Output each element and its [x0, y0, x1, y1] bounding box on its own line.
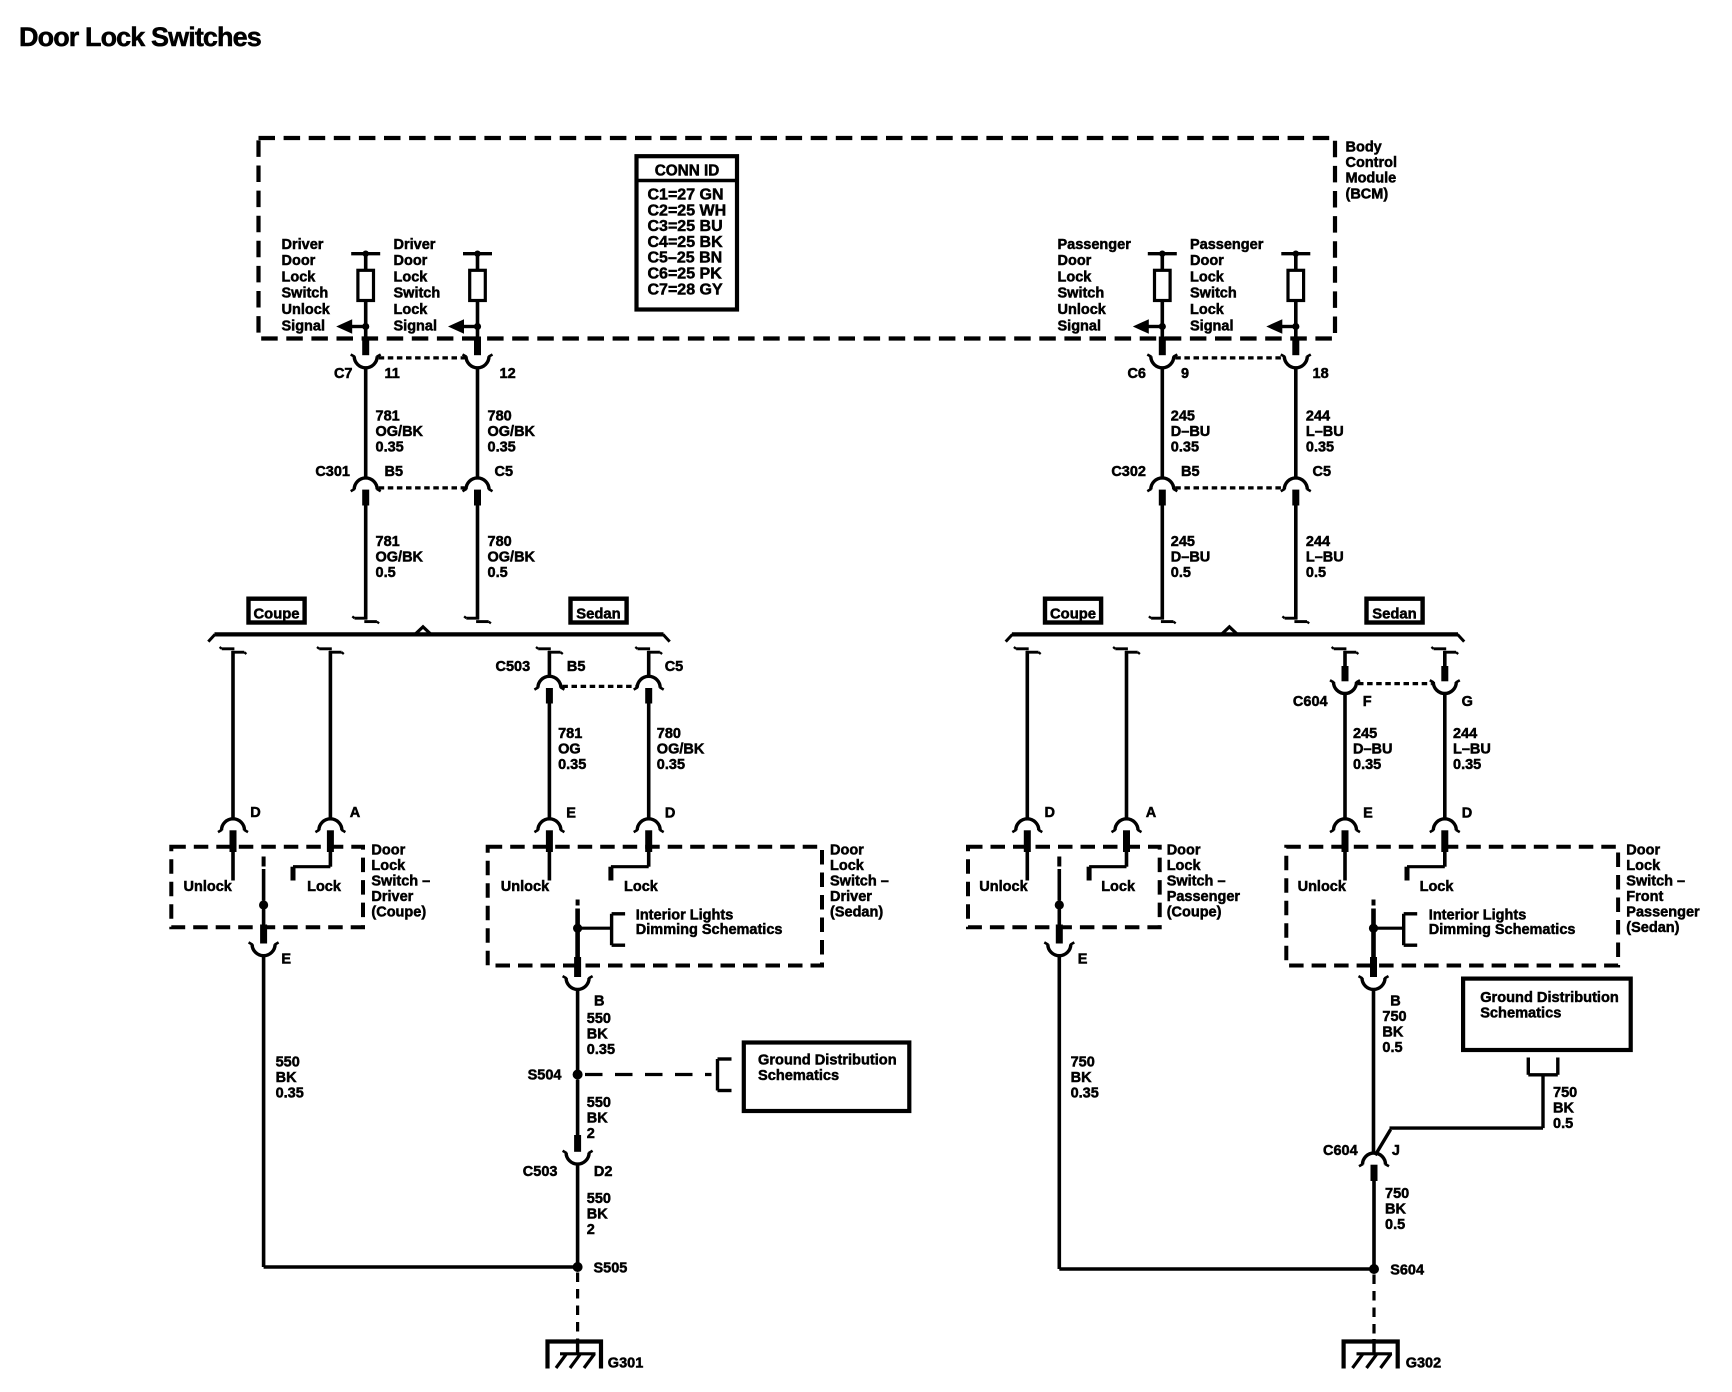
svg-text:Door: Door — [394, 253, 428, 269]
connector pin A passenger coupe switch — [1112, 805, 1157, 852]
bus brace driver side — [208, 627, 669, 642]
connector C302 pin B5 — [1147, 478, 1177, 506]
signal arrow driver lock — [448, 319, 481, 334]
svg-text:D: D — [665, 806, 675, 822]
svg-text:Signal: Signal — [282, 318, 326, 334]
svg-text:Unlock: Unlock — [979, 879, 1028, 895]
svg-text:0.35: 0.35 — [1071, 1086, 1099, 1102]
switch S4 Door Lock Switch - Front Passenger (Sedan) dashed box — [1286, 847, 1618, 990]
svg-text:Unlock: Unlock — [1058, 302, 1107, 318]
svg-text:C604: C604 — [1323, 1143, 1358, 1159]
label Unlock (passenger sedan) — [1298, 879, 1347, 895]
svg-text:S505: S505 — [594, 1261, 628, 1277]
svg-text:Switch: Switch — [1058, 286, 1105, 302]
connector C604 pin J — [1359, 1153, 1389, 1181]
svg-text:D–BU: D–BU — [1171, 550, 1210, 566]
svg-text:L–BU: L–BU — [1453, 742, 1491, 758]
svg-text:Lock: Lock — [371, 858, 406, 874]
svg-text:Switch: Switch — [1190, 286, 1237, 302]
svg-text:750: 750 — [1382, 1009, 1406, 1025]
svg-text:BK: BK — [1382, 1025, 1403, 1041]
wire and connector C6 pin 9 — [1147, 327, 1177, 368]
svg-text:0.35: 0.35 — [558, 757, 586, 773]
svg-text:Lock: Lock — [1058, 269, 1093, 285]
wire from ground distribution reference (right) — [1375, 1058, 1558, 1156]
wire sedan branch through connector C604 pin G — [1430, 647, 1460, 819]
resistor passenger unlock signal pull-up (BCM) — [1148, 251, 1177, 327]
splice S504 — [528, 1068, 583, 1084]
label Driver Door Lock Switch Unlock Signal — [282, 237, 331, 334]
svg-text:750: 750 — [1385, 1186, 1409, 1202]
svg-text:Driver: Driver — [282, 237, 324, 253]
label 781 OG/BK 0.35 — [376, 409, 424, 456]
svg-text:0.35: 0.35 — [1353, 757, 1381, 773]
label C301 B5 C5 — [315, 464, 513, 480]
label box Coupe (passenger) — [1045, 599, 1101, 623]
connector link C7 dashed — [379, 356, 465, 359]
label box Sedan (passenger) — [1367, 599, 1423, 623]
wire coupe branch to passenger switch lock (A) — [1113, 647, 1140, 819]
connector link C302 dashed — [1175, 486, 1283, 489]
svg-text:Lock: Lock — [830, 858, 865, 874]
connector pin E driver coupe switch output — [281, 952, 291, 968]
svg-text:C7: C7 — [334, 366, 353, 382]
svg-text:Switch –: Switch – — [1626, 873, 1685, 889]
svg-text:Lock: Lock — [1190, 269, 1225, 285]
svg-text:B: B — [594, 994, 604, 1010]
reference box Ground Distribution Schematics (right) — [1463, 979, 1631, 1050]
resistor passenger lock signal pull-up (BCM) — [1281, 251, 1310, 327]
svg-text:Door Lock Switches: Door Lock Switches — [19, 22, 261, 52]
svg-text:(Coupe): (Coupe) — [371, 904, 426, 920]
svg-text:Ground Distribution: Ground Distribution — [1480, 990, 1619, 1006]
label 244 L-BU 0.35 (sedan) — [1453, 726, 1491, 773]
label 550 BK 0.35 (sedan) — [587, 1011, 615, 1058]
svg-text:Switch: Switch — [282, 286, 329, 302]
svg-text:C5: C5 — [665, 659, 684, 675]
label Unlock (driver coupe) — [184, 879, 233, 895]
svg-text:C2=25 WH: C2=25 WH — [648, 202, 727, 219]
svg-text:S504: S504 — [528, 1068, 562, 1084]
wire 781 OG/BK 0.35 — [364, 368, 368, 479]
label Unlock (driver sedan) — [501, 879, 550, 895]
label C503 B5 C5 — [496, 659, 684, 675]
svg-text:Door: Door — [1167, 842, 1201, 858]
wire dashed to ground G301 — [576, 1273, 579, 1340]
switch S1 Door Lock Switch - Driver (Coupe) dashed box — [171, 847, 363, 956]
label Lock (passenger coupe) — [1101, 879, 1136, 895]
svg-text:C1=27 GN: C1=27 GN — [648, 187, 724, 204]
svg-text:L–BU: L–BU — [1306, 424, 1344, 440]
connector pin E passenger coupe switch output — [1078, 952, 1088, 968]
connector link C6 dashed — [1175, 356, 1283, 359]
label Lock (passenger sedan) — [1420, 879, 1455, 895]
wire 781 OG/BK 0.5 — [352, 506, 379, 624]
connector pin D driver sedan switch — [634, 806, 676, 852]
svg-text:Door: Door — [1190, 253, 1224, 269]
wire sedan branch through connector C604 pin F — [1330, 647, 1360, 819]
svg-text:0.35: 0.35 — [276, 1086, 304, 1102]
svg-text:0.5: 0.5 — [1382, 1040, 1402, 1056]
switch S3 Door Lock Switch - Passenger (Coupe) dashed box — [968, 847, 1160, 956]
svg-text:18: 18 — [1313, 366, 1329, 382]
svg-text:Door: Door — [1626, 842, 1660, 858]
label 245 D-BU 0.35 (sedan) — [1353, 726, 1392, 773]
svg-text:C503: C503 — [523, 1164, 558, 1180]
svg-text:780: 780 — [657, 726, 681, 742]
svg-text:550: 550 — [587, 1095, 611, 1111]
svg-text:2: 2 — [587, 1222, 595, 1238]
connector C301 pin C5 — [463, 478, 493, 506]
label 750 BK 0.5 (lower) — [1385, 1186, 1409, 1233]
svg-text:Lock: Lock — [282, 269, 317, 285]
label 780 OG/BK 0.35 — [657, 726, 705, 773]
svg-text:C6=25 PK: C6=25 PK — [648, 266, 723, 283]
wire dashed to ground distribution (S504) — [585, 1059, 732, 1091]
svg-text:G: G — [1462, 694, 1473, 710]
wire 244 L-BU 0.35 — [1294, 368, 1298, 479]
svg-text:OG/BK: OG/BK — [657, 742, 705, 758]
signal arrow passenger unlock — [1133, 319, 1166, 334]
svg-text:Lock: Lock — [624, 879, 659, 895]
svg-text:0.35: 0.35 — [1453, 757, 1481, 773]
svg-text:Unlock: Unlock — [501, 879, 550, 895]
svg-text:Sedan: Sedan — [1372, 606, 1416, 622]
connector pin B passenger sedan switch output — [1390, 994, 1400, 1010]
svg-text:Door: Door — [371, 842, 405, 858]
svg-text:Lock: Lock — [1420, 879, 1455, 895]
svg-text:C6: C6 — [1127, 366, 1146, 382]
svg-text:C5–25 BN: C5–25 BN — [648, 250, 723, 267]
svg-text:C604: C604 — [1293, 694, 1328, 710]
svg-text:C302: C302 — [1111, 464, 1146, 480]
label 550 BK 0.35 (coupe) — [276, 1055, 304, 1102]
wire sedan branch through connector C503 pin B5 — [534, 647, 564, 819]
label 781 OG/BK 0.5 — [376, 534, 424, 581]
svg-text:781: 781 — [376, 409, 400, 425]
svg-text:Front: Front — [1626, 889, 1663, 905]
label Interior Lights Dimming Schematics (driver) — [636, 907, 783, 938]
label 244 L-BU 0.35 — [1306, 409, 1344, 456]
svg-text:S604: S604 — [1390, 1263, 1424, 1279]
svg-text:BK: BK — [1071, 1070, 1092, 1086]
svg-text:E: E — [1363, 806, 1373, 822]
label box Sedan (driver) — [571, 599, 627, 623]
connector pin B driver sedan switch output — [594, 994, 604, 1010]
svg-text:B5: B5 — [385, 464, 404, 480]
svg-text:Door: Door — [1058, 253, 1092, 269]
wire coupe branch to driver switch lock (A) — [317, 647, 344, 819]
svg-text:780: 780 — [488, 534, 512, 550]
svg-text:245: 245 — [1171, 534, 1195, 550]
label 245 D-BU 0.35 — [1171, 409, 1210, 456]
svg-text:Lock: Lock — [394, 269, 429, 285]
wire 780 OG/BK 0.5 — [464, 506, 491, 624]
svg-text:BK: BK — [587, 1207, 608, 1223]
label C503 D2 — [523, 1164, 613, 1180]
svg-text:C3=25 BU: C3=25 BU — [648, 218, 723, 235]
svg-text:Sedan: Sedan — [576, 606, 620, 622]
label C302 B5 C5 — [1111, 464, 1331, 480]
svg-text:9: 9 — [1181, 366, 1189, 382]
svg-text:0.5: 0.5 — [1171, 565, 1191, 581]
wire 750 BK 0.5 (to S604) — [1372, 1181, 1376, 1269]
svg-text:E: E — [1078, 952, 1088, 968]
svg-text:BK: BK — [1553, 1101, 1574, 1117]
svg-text:Dimming Schematics: Dimming Schematics — [636, 922, 783, 938]
svg-text:Lock: Lock — [1626, 858, 1661, 874]
label 780 OG/BK 0.35 — [488, 409, 536, 456]
svg-text:Driver: Driver — [394, 237, 436, 253]
svg-text:G301: G301 — [608, 1356, 643, 1372]
connector pin D driver coupe switch — [218, 805, 261, 852]
svg-text:Driver: Driver — [830, 889, 872, 905]
wire and connector C7 pin 12 — [463, 327, 493, 368]
splice S505 — [573, 1261, 628, 1277]
wire coupe E to splice S505 — [264, 1265, 578, 1269]
svg-text:12: 12 — [500, 366, 516, 382]
label C7 11 12 — [334, 366, 516, 382]
svg-text:0.5: 0.5 — [376, 565, 396, 581]
svg-text:C5: C5 — [495, 464, 514, 480]
title Door Lock Switches — [19, 22, 261, 52]
connector pin D passenger sedan switch — [1430, 806, 1472, 852]
wire 244 L-BU 0.5 — [1282, 506, 1309, 624]
splice S604 — [1369, 1263, 1424, 1279]
svg-text:Unlock: Unlock — [1298, 879, 1347, 895]
svg-text:Schematics: Schematics — [1480, 1006, 1561, 1022]
label 780 OG/BK 0.5 — [488, 534, 536, 581]
svg-text:D: D — [250, 805, 260, 821]
label C604 J — [1323, 1143, 1400, 1159]
svg-text:J: J — [1392, 1143, 1400, 1159]
svg-text:750: 750 — [1071, 1055, 1095, 1071]
svg-text:D: D — [1462, 806, 1472, 822]
svg-text:Unlock: Unlock — [184, 879, 233, 895]
reference box Ground Distribution Schematics (left) — [744, 1043, 910, 1112]
label 750 BK 0.35 (coupe) — [1071, 1055, 1099, 1102]
svg-text:244: 244 — [1306, 409, 1330, 425]
label 550 BK 2 (upper) — [587, 1095, 611, 1142]
svg-text:781: 781 — [558, 726, 582, 742]
wire coupe branch to passenger switch unlock (D) — [1014, 647, 1041, 819]
svg-text:0.5: 0.5 — [1306, 565, 1326, 581]
wire 780 OG/BK 0.35 — [476, 368, 480, 479]
wire 550 BK 2 (lower) — [576, 1164, 580, 1267]
svg-text:B: B — [1390, 994, 1400, 1010]
svg-text:Interior Lights: Interior Lights — [636, 907, 733, 923]
svg-text:D: D — [1045, 805, 1055, 821]
switch S2 Door Lock Switch - Driver (Sedan) dashed box — [488, 847, 822, 990]
label C6 9 18 — [1127, 366, 1328, 382]
label Door Lock Switch - Passenger (Coupe) — [1167, 842, 1241, 920]
wire 550 BK 0.35 (sedan driver B) — [576, 989, 580, 1070]
svg-text:244: 244 — [1306, 534, 1330, 550]
svg-text:Coupe: Coupe — [253, 606, 299, 622]
svg-text:Door: Door — [282, 253, 316, 269]
svg-text:C7=28 GY: C7=28 GY — [648, 281, 723, 298]
svg-text:(Sedan): (Sedan) — [830, 904, 883, 920]
svg-text:E: E — [566, 806, 576, 822]
connector pin E driver sedan switch — [534, 806, 576, 852]
svg-text:550: 550 — [587, 1011, 611, 1027]
svg-text:BK: BK — [587, 1111, 608, 1127]
svg-text:Interior Lights: Interior Lights — [1429, 907, 1526, 923]
label Interior Lights Dimming Schematics (passenger) — [1429, 907, 1576, 938]
svg-text:C4=25 BK: C4=25 BK — [648, 234, 724, 251]
svg-text:BK: BK — [276, 1070, 297, 1086]
svg-text:Switch –: Switch – — [371, 873, 430, 889]
svg-text:0.35: 0.35 — [587, 1042, 615, 1058]
bus brace passenger side — [1006, 627, 1464, 642]
svg-text:G302: G302 — [1406, 1356, 1441, 1372]
svg-text:Dimming Schematics: Dimming Schematics — [1429, 922, 1576, 938]
svg-text:Passenger: Passenger — [1190, 237, 1264, 253]
svg-text:0.35: 0.35 — [1306, 440, 1334, 456]
label Lock (driver coupe) — [307, 879, 342, 895]
svg-text:Coupe: Coupe — [1050, 606, 1096, 622]
ground G302 — [1344, 1339, 1442, 1372]
svg-text:C503: C503 — [496, 659, 531, 675]
svg-text:C301: C301 — [315, 464, 350, 480]
label box Coupe (driver) — [249, 599, 305, 623]
label Body Control Module (BCM) — [1346, 140, 1398, 203]
svg-text:OG/BK: OG/BK — [488, 550, 536, 566]
svg-text:0.35: 0.35 — [488, 440, 516, 456]
label 781 OG 0.35 — [558, 726, 586, 773]
label 750 BK 0.5 (reference drop) — [1553, 1085, 1577, 1132]
svg-text:OG/BK: OG/BK — [376, 550, 424, 566]
wire coupe E to splice S604 — [1059, 1267, 1374, 1271]
svg-text:(Coupe): (Coupe) — [1167, 904, 1222, 920]
svg-text:(BCM): (BCM) — [1346, 186, 1389, 202]
svg-text:A: A — [1146, 805, 1157, 821]
connector pin D passenger coupe switch — [1012, 805, 1055, 852]
svg-text:0.5: 0.5 — [1385, 1217, 1405, 1233]
svg-text:Body: Body — [1346, 140, 1382, 156]
svg-text:Signal: Signal — [1058, 318, 1102, 334]
connector C503 pin D2 — [563, 1135, 593, 1164]
label Passenger Door Lock Switch Lock Signal — [1190, 237, 1264, 334]
svg-text:Module: Module — [1346, 171, 1397, 187]
svg-text:BK: BK — [1385, 1202, 1406, 1218]
wire dashed to ground G302 — [1372, 1275, 1375, 1340]
svg-text:0.35: 0.35 — [1171, 440, 1199, 456]
wire 550 BK 2 (upper) — [576, 1080, 580, 1137]
svg-text:550: 550 — [276, 1055, 300, 1071]
svg-text:A: A — [350, 805, 361, 821]
svg-text:F: F — [1363, 694, 1372, 710]
svg-text:Door: Door — [830, 842, 864, 858]
svg-text:D–BU: D–BU — [1171, 424, 1210, 440]
label 244 L-BU 0.5 — [1306, 534, 1344, 581]
wire and connector C6 pin 18 — [1281, 327, 1311, 368]
svg-text:750: 750 — [1553, 1085, 1577, 1101]
svg-text:Driver: Driver — [371, 889, 413, 905]
connector pin A driver coupe switch — [315, 805, 360, 852]
svg-text:0.5: 0.5 — [488, 565, 508, 581]
svg-text:Lock: Lock — [1190, 302, 1225, 318]
svg-text:(Sedan): (Sedan) — [1626, 920, 1679, 936]
signal arrow passenger lock — [1266, 319, 1299, 334]
label Door Lock Switch - Front Passenger (Sedan) — [1626, 842, 1700, 936]
svg-text:Signal: Signal — [394, 318, 438, 334]
svg-text:B5: B5 — [567, 659, 586, 675]
svg-text:0.35: 0.35 — [657, 757, 685, 773]
svg-text:Lock: Lock — [1101, 879, 1136, 895]
wire 245 D-BU 0.35 — [1161, 368, 1165, 479]
wire 245 D-BU 0.5 — [1149, 506, 1176, 624]
svg-text:D–BU: D–BU — [1353, 742, 1392, 758]
svg-text:C5: C5 — [1313, 464, 1332, 480]
svg-text:Lock: Lock — [307, 879, 342, 895]
wire and connector C7 pin 11 — [351, 327, 381, 368]
svg-text:BK: BK — [587, 1027, 608, 1043]
wire 750 BK 0.5 (sedan passenger B) — [1372, 989, 1376, 1154]
resistor driver unlock signal pull-up (BCM) — [351, 251, 380, 327]
label Door Lock Switch - Driver (Coupe) — [371, 842, 430, 920]
ground G301 — [548, 1339, 644, 1372]
label Unlock (passenger coupe) — [979, 879, 1028, 895]
label Driver Door Lock Switch Lock Signal — [394, 237, 441, 334]
svg-text:Switch: Switch — [394, 286, 441, 302]
svg-text:244: 244 — [1453, 726, 1477, 742]
svg-text:245: 245 — [1353, 726, 1377, 742]
svg-text:550: 550 — [587, 1191, 611, 1207]
svg-text:Switch –: Switch – — [1167, 873, 1226, 889]
svg-text:Lock: Lock — [1167, 858, 1202, 874]
svg-text:Ground Distribution: Ground Distribution — [758, 1053, 897, 1069]
svg-text:OG/BK: OG/BK — [488, 424, 536, 440]
connector C301 pin B5 — [351, 478, 381, 506]
svg-text:11: 11 — [385, 366, 400, 382]
module box Body Control Module (BCM) dashed outline — [259, 138, 1336, 339]
wire coupe branch to driver switch unlock (D) — [220, 647, 247, 819]
label 550 BK 2 (lower) — [587, 1191, 611, 1238]
svg-text:Switch –: Switch – — [830, 873, 889, 889]
svg-text:OG/BK: OG/BK — [376, 424, 424, 440]
svg-text:0.35: 0.35 — [376, 440, 404, 456]
svg-text:Signal: Signal — [1190, 318, 1234, 334]
svg-text:Passenger: Passenger — [1167, 889, 1241, 905]
svg-text:Lock: Lock — [394, 302, 429, 318]
svg-text:780: 780 — [488, 409, 512, 425]
svg-text:L–BU: L–BU — [1306, 550, 1344, 566]
svg-text:Control: Control — [1346, 155, 1398, 171]
svg-text:Schematics: Schematics — [758, 1068, 839, 1084]
connector link C604 dashed — [1358, 682, 1432, 685]
connector pin E passenger sedan switch — [1330, 806, 1373, 852]
label 245 D-BU 0.5 — [1171, 534, 1210, 581]
connector link C503 dashed — [562, 685, 635, 688]
svg-text:245: 245 — [1171, 409, 1195, 425]
svg-text:E: E — [281, 952, 291, 968]
svg-text:0.5: 0.5 — [1553, 1116, 1573, 1132]
wire 750 BK 0.35 (coupe passenger E) — [1058, 955, 1062, 1269]
resistor driver lock signal pull-up (BCM) — [463, 251, 492, 327]
svg-text:Unlock: Unlock — [282, 302, 331, 318]
connector link C301 dashed — [379, 486, 465, 489]
wire sedan branch through connector C503 pin C5 — [634, 647, 664, 819]
svg-text:Passenger: Passenger — [1626, 904, 1700, 920]
label Passenger Door Lock Switch Unlock Signal — [1058, 237, 1132, 334]
signal arrow driver unlock — [336, 319, 369, 334]
wire 550 BK 0.35 (coupe driver E) — [262, 955, 266, 1267]
svg-text:B5: B5 — [1181, 464, 1200, 480]
svg-text:CONN ID: CONN ID — [655, 163, 720, 180]
svg-text:781: 781 — [376, 534, 400, 550]
svg-text:D2: D2 — [594, 1164, 613, 1180]
